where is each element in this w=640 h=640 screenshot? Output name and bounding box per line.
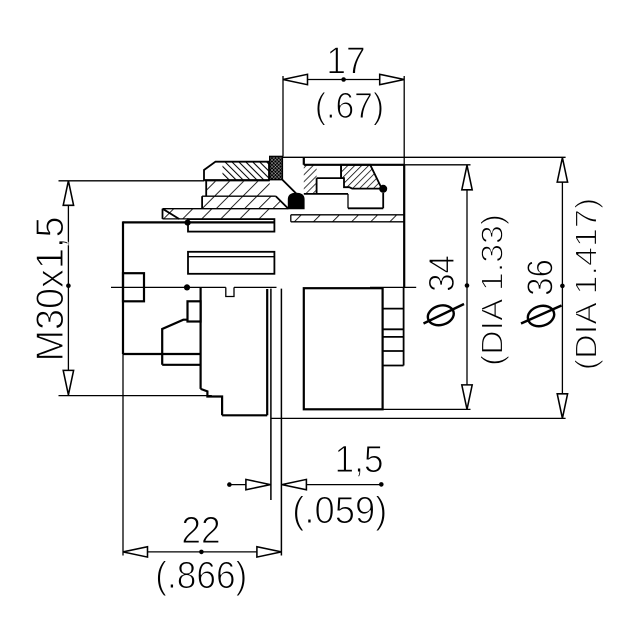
bar B2 — [188, 252, 274, 274]
dim 17 line — [283, 79, 404, 81]
front shell top edge — [123, 221, 274, 223]
gland diagonal D2 — [276, 196, 289, 209]
centerline — [111, 286, 226, 288]
screw stem — [382, 193, 384, 209]
thread line under nut — [204, 180, 269, 182]
rear housing — [304, 288, 383, 409]
svg-text:(.67): (.67) — [315, 86, 384, 126]
svg-text:22: 22 — [181, 509, 220, 551]
svg-text:M30x1,5: M30x1,5 — [28, 216, 72, 361]
dim dia36 line — [561, 158, 563, 419]
text (DIA 1.417) — [569, 198, 603, 370]
nut silhouette bottom — [222, 414, 267, 416]
strip S diagonal — [163, 209, 180, 219]
strip S2 — [291, 215, 404, 222]
washer B1 — [188, 219, 274, 232]
dia symbol 36 — [525, 303, 556, 329]
dim 22 line — [123, 551, 281, 553]
dim dia34 line — [466, 165, 468, 409]
svg-text:1,5: 1,5 — [334, 438, 383, 480]
junction dot — [185, 220, 191, 226]
text (DIA 1.33) — [475, 214, 509, 366]
insert box R2 — [188, 301, 201, 321]
svg-text:36: 36 — [521, 259, 561, 296]
svg-text:34: 34 — [423, 255, 463, 292]
CL notch — [226, 287, 234, 296]
keyway box on front face — [123, 273, 144, 301]
strip S left edge — [162, 209, 164, 219]
text 22 — [181, 509, 220, 551]
O-ring dome — [288, 193, 304, 208]
body right face — [403, 165, 405, 288]
band B — [202, 196, 288, 209]
dim dia36 top ext — [282, 156, 565, 158]
text 1,5 — [334, 438, 383, 480]
dim 17 ext right — [403, 76, 405, 165]
text M30x1,5 — [28, 216, 72, 361]
svg-text:(.866): (.866) — [155, 554, 247, 597]
terminal rungs — [383, 308, 404, 310]
housing top edge — [304, 164, 404, 166]
window — [317, 177, 342, 179]
text 17 — [326, 39, 365, 81]
dim 1,5 right part — [282, 484, 381, 486]
thread band A — [206, 181, 270, 196]
text dia36 — [521, 259, 561, 296]
flange front face / 1,5 ext — [270, 289, 272, 500]
dim M30 top ext — [59, 180, 205, 182]
nut (sectioned, backslash hatch) — [223, 162, 270, 180]
svg-text:17: 17 — [326, 39, 365, 81]
text (.67) — [315, 86, 384, 126]
dim M30 line — [67, 181, 69, 395]
shell bottom silhouette — [123, 353, 201, 355]
screw dot — [379, 185, 387, 193]
hatched wedge H2 — [341, 165, 382, 189]
flange back face / 22 ext — [280, 289, 282, 556]
dim dia36 bottom ext — [271, 417, 566, 419]
bayonet lug — [162, 320, 187, 365]
housing wall hatch H1a — [304, 165, 317, 194]
gland diagonal D1 — [282, 180, 296, 194]
strip S hatched — [163, 209, 275, 219]
svg-text:(DIA 1.417): (DIA 1.417) — [569, 198, 603, 370]
dim dia34 bottom ext — [383, 408, 471, 410]
flange seal block (dark) — [270, 156, 283, 179]
nut back face — [266, 289, 268, 415]
dim 22 left ext — [122, 354, 124, 556]
front shell face — [122, 221, 124, 354]
text (.866) — [155, 554, 247, 597]
dim dia34 top ext — [404, 164, 470, 166]
chamfer steps — [201, 389, 223, 415]
dim 1,5 left part — [229, 484, 270, 486]
dim M30 bottom ext — [59, 395, 212, 397]
housing front step — [303, 158, 305, 165]
shell back face — [200, 287, 202, 389]
terminal right edge — [403, 287, 405, 365]
text dia34 — [423, 255, 463, 292]
svg-text:(.059): (.059) — [292, 488, 387, 531]
dia symbol 34 — [425, 302, 456, 328]
svg-text:(DIA 1.33): (DIA 1.33) — [475, 214, 509, 366]
text (.059) — [292, 488, 387, 531]
dim 17 ext left — [282, 76, 284, 156]
